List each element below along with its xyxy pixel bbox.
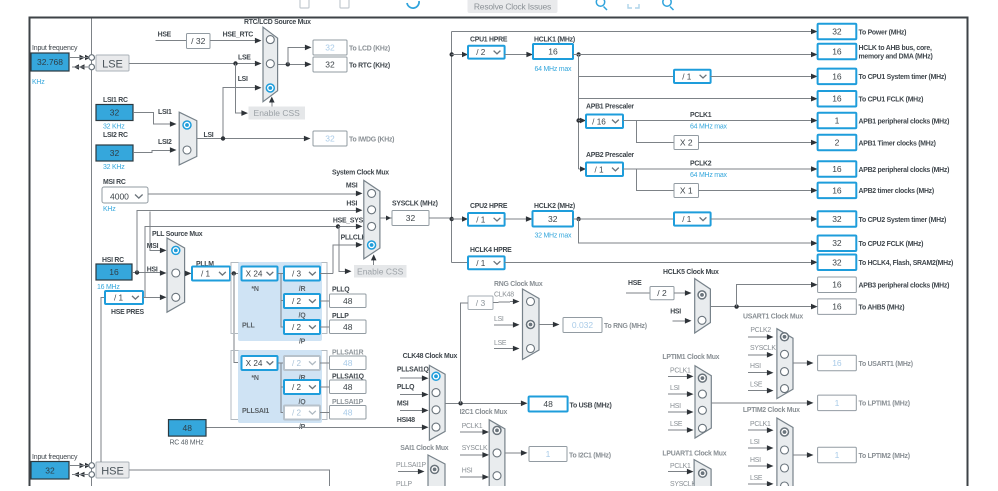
svg-text:To RNG (MHz): To RNG (MHz) (604, 323, 647, 330)
svg-text:X 24: X 24 (246, 359, 263, 368)
svg-text:32: 32 (325, 134, 335, 144)
svg-text:16: 16 (832, 280, 842, 290)
svg-text:HSI48: HSI48 (397, 417, 415, 424)
svg-text:48: 48 (343, 322, 353, 332)
svg-text:MSI: MSI (397, 401, 409, 408)
svg-text:SYSCLK: SYSCLK (670, 481, 696, 486)
svg-text:HCLK2 (MHz): HCLK2 (MHz) (534, 203, 575, 210)
svg-text:To CPU2 FCLK (MHz): To CPU2 FCLK (MHz) (859, 241, 924, 248)
svg-text:HSI: HSI (147, 267, 158, 274)
svg-text:To HCLK4, Flash, SRAM2(MHz): To HCLK4, Flash, SRAM2(MHz) (859, 260, 954, 267)
svg-text:32: 32 (45, 465, 55, 475)
svg-text:/Q: /Q (299, 313, 307, 320)
svg-text:X 2: X 2 (680, 138, 693, 148)
svg-text:*N: *N (251, 286, 258, 293)
svg-text:/ 2: / 2 (292, 297, 302, 306)
svg-text:PCLK2: PCLK2 (690, 161, 712, 168)
svg-text:32: 32 (325, 60, 335, 70)
svg-text:PCLK1: PCLK1 (690, 112, 712, 119)
svg-text:Resolve Clock Issues: Resolve Clock Issues (474, 1, 551, 11)
svg-text:PCLK1: PCLK1 (750, 421, 771, 428)
svg-text:To LPTIM1 (MHz): To LPTIM1 (MHz) (859, 401, 910, 408)
svg-text:PLLP: PLLP (332, 313, 349, 320)
svg-text:PCLK1: PCLK1 (462, 423, 483, 430)
svg-text:HSI RC: HSI RC (102, 257, 124, 264)
svg-text:48: 48 (343, 296, 353, 306)
svg-text:*N: *N (251, 375, 258, 382)
svg-text:32: 32 (110, 108, 120, 118)
svg-text:APB1 Timer clocks (MHz): APB1 Timer clocks (MHz) (859, 140, 936, 147)
svg-text:PLL: PLL (242, 323, 255, 330)
svg-text:To LPTIM2 (MHz): To LPTIM2 (MHz) (859, 453, 910, 460)
svg-text:32: 32 (832, 257, 842, 267)
svg-text:64 MHz max: 64 MHz max (690, 172, 728, 179)
svg-text:16: 16 (832, 302, 842, 312)
svg-text:32: 32 (406, 213, 416, 223)
svg-text:32.768: 32.768 (37, 57, 63, 67)
svg-text:LSI: LSI (670, 385, 680, 392)
svg-text:Enable CSS: Enable CSS (357, 266, 404, 276)
svg-text:HSI: HSI (670, 309, 681, 316)
svg-text:PLLSAI1R: PLLSAI1R (332, 350, 364, 357)
svg-text:MSI RC: MSI RC (103, 179, 126, 186)
svg-text:16 MHz: 16 MHz (97, 284, 120, 291)
svg-text:/ 1: / 1 (682, 72, 692, 81)
svg-text:LSE: LSE (750, 475, 763, 482)
svg-text:HSI: HSI (750, 363, 761, 370)
svg-text:/ 2: / 2 (476, 48, 486, 57)
svg-text:RC 48 MHz: RC 48 MHz (170, 440, 205, 447)
svg-text:/R: /R (299, 286, 306, 293)
svg-text:RNG Clock Mux: RNG Clock Mux (494, 281, 543, 288)
svg-text:1: 1 (546, 449, 551, 459)
svg-text:PCLK2: PCLK2 (750, 327, 771, 334)
svg-text:PLL Source Mux: PLL Source Mux (152, 231, 203, 238)
svg-text:PCLK1: PCLK1 (670, 367, 691, 374)
svg-text:PLLSAI1Q: PLLSAI1Q (332, 374, 365, 381)
svg-text:LSE: LSE (238, 55, 251, 62)
svg-text:16: 16 (548, 47, 558, 57)
svg-text:HSE: HSE (101, 466, 124, 478)
svg-text:LSI: LSI (494, 316, 504, 323)
svg-text:/ 16: / 16 (592, 117, 606, 126)
svg-text:32: 32 (325, 43, 335, 53)
svg-text:/P: /P (299, 339, 306, 346)
svg-text:Enable CSS: Enable CSS (254, 108, 301, 118)
svg-text:KHz: KHz (32, 79, 45, 86)
svg-text:To Power (MHz): To Power (MHz) (859, 29, 907, 36)
svg-text:16: 16 (832, 358, 842, 368)
svg-text:PLLQ: PLLQ (397, 384, 415, 391)
svg-text:APB1 peripheral clocks (MHz): APB1 peripheral clocks (MHz) (859, 118, 950, 125)
svg-text:/ 2: / 2 (292, 383, 302, 392)
svg-text:16: 16 (109, 267, 119, 277)
svg-text:48: 48 (343, 382, 353, 392)
svg-text:/ 32: / 32 (191, 36, 205, 46)
svg-text:16: 16 (832, 185, 842, 195)
svg-text:PLLCLK: PLLCLK (341, 235, 367, 242)
svg-text:LSI2: LSI2 (158, 139, 172, 146)
svg-text:/ 1: / 1 (476, 259, 486, 268)
svg-text:I2C1 Clock Mux: I2C1 Clock Mux (460, 409, 508, 416)
svg-text:/ 1: / 1 (114, 294, 124, 303)
svg-text:/ 1: / 1 (201, 270, 211, 279)
svg-text:PLLSAI1: PLLSAI1 (242, 408, 269, 415)
svg-text:LSI2 RC: LSI2 RC (103, 132, 128, 139)
svg-text:32 KHz: 32 KHz (103, 124, 125, 131)
svg-text:HSE PRES: HSE PRES (111, 309, 145, 316)
svg-text:LPTIM1 Clock Mux: LPTIM1 Clock Mux (662, 354, 719, 361)
svg-text:LSI: LSI (750, 439, 760, 446)
svg-text:To CPU1 System timer (MHz): To CPU1 System timer (MHz) (859, 74, 947, 81)
svg-text:APB2 Prescaler: APB2 Prescaler (586, 152, 634, 159)
svg-text:HSE_SYS: HSE_SYS (333, 217, 364, 224)
svg-text:/ 2: / 2 (292, 323, 302, 332)
svg-text:APB3 peripheral clocks (MHz): APB3 peripheral clocks (MHz) (859, 283, 950, 290)
svg-text:/ 2: / 2 (292, 359, 302, 368)
svg-text:SYSCLK (MHz): SYSCLK (MHz) (392, 201, 438, 208)
svg-text:32: 32 (832, 27, 842, 37)
svg-text:32: 32 (832, 238, 842, 248)
svg-text:32: 32 (548, 214, 558, 224)
svg-text:1: 1 (835, 116, 840, 126)
svg-text:48: 48 (343, 407, 353, 417)
svg-text:32 MHz max: 32 MHz max (535, 233, 573, 240)
svg-text:HCLK1 (MHz): HCLK1 (MHz) (534, 37, 575, 44)
svg-text:To CPU1 FCLK (MHz): To CPU1 FCLK (MHz) (859, 97, 924, 104)
svg-text:X 24: X 24 (246, 270, 263, 279)
svg-text:HCLK to AHB bus, core,: HCLK to AHB bus, core, (859, 45, 932, 52)
svg-text:/ 2: / 2 (292, 409, 302, 418)
svg-text:RTC/LCD Source Mux: RTC/LCD Source Mux (244, 19, 311, 26)
svg-text:16: 16 (832, 94, 842, 104)
svg-text:SYSCLK: SYSCLK (462, 445, 488, 452)
svg-text:To USART1 (MHz): To USART1 (MHz) (859, 361, 913, 368)
svg-text:PLLP: PLLP (396, 481, 413, 486)
svg-text:To USB (MHz): To USB (MHz) (570, 403, 612, 410)
svg-text:/ 3: / 3 (292, 270, 302, 279)
svg-text:HSI: HSI (670, 403, 681, 410)
svg-text:PLLSAI1Q: PLLSAI1Q (397, 367, 430, 374)
svg-text:LSI1: LSI1 (158, 109, 172, 116)
svg-text:PCLK1: PCLK1 (670, 463, 691, 470)
svg-text:64 MHz max: 64 MHz max (535, 66, 573, 73)
svg-text:48: 48 (543, 399, 553, 409)
svg-text:/ 1: / 1 (476, 215, 486, 224)
svg-text:/ 1: / 1 (682, 215, 692, 224)
svg-text:To I2C1 (MHz): To I2C1 (MHz) (569, 453, 611, 460)
svg-text:1: 1 (835, 450, 840, 460)
svg-text:16: 16 (832, 164, 842, 174)
svg-text:HCLK4 HPRE: HCLK4 HPRE (470, 247, 512, 254)
svg-text:CLK48 Clock Mux: CLK48 Clock Mux (403, 353, 458, 360)
svg-text:/ 2: / 2 (657, 288, 667, 298)
svg-text:16: 16 (832, 71, 842, 81)
svg-text:memory and DMA (MHz): memory and DMA (MHz) (859, 54, 933, 61)
svg-text:HSI: HSI (346, 200, 357, 207)
svg-text:CPU1 HPRE: CPU1 HPRE (470, 37, 508, 44)
svg-text:PLLSAI1P: PLLSAI1P (332, 399, 364, 406)
svg-text:4000: 4000 (110, 192, 129, 202)
svg-text:PLLSAI1P: PLLSAI1P (396, 462, 426, 469)
svg-text:0.032: 0.032 (572, 320, 594, 330)
svg-text:To CPU2 System timer (MHz): To CPU2 System timer (MHz) (859, 217, 947, 224)
svg-text:LPUART1 Clock Mux: LPUART1 Clock Mux (662, 451, 726, 458)
svg-text:MSI: MSI (346, 183, 358, 190)
svg-text:SYSCLK: SYSCLK (750, 345, 776, 352)
svg-text:HCLK5 Clock Mux: HCLK5 Clock Mux (663, 269, 719, 276)
svg-text:16: 16 (832, 47, 842, 57)
svg-text:Input frequency: Input frequency (32, 454, 78, 461)
svg-text:USART1 Clock Mux: USART1 Clock Mux (743, 314, 803, 321)
svg-text:To AHB5 (MHz): To AHB5 (MHz) (859, 304, 905, 311)
svg-text:APB1 Prescaler: APB1 Prescaler (586, 104, 634, 111)
svg-text:/ 3: / 3 (476, 298, 486, 308)
svg-text:MSI: MSI (147, 243, 159, 250)
svg-text:Input frequency: Input frequency (32, 45, 78, 52)
svg-text:48: 48 (183, 423, 193, 433)
svg-text:X 1: X 1 (680, 186, 693, 196)
svg-text:LSE: LSE (750, 381, 763, 388)
svg-text:HSE_RTC: HSE_RTC (223, 32, 254, 39)
svg-text:APB2 timer clocks (MHz): APB2 timer clocks (MHz) (859, 188, 934, 195)
svg-text:System Clock Mux: System Clock Mux (332, 170, 389, 177)
svg-text:PLLQ: PLLQ (332, 287, 350, 294)
svg-text:APB2 peripheral clocks (MHz): APB2 peripheral clocks (MHz) (859, 167, 950, 174)
svg-text:HSE: HSE (628, 280, 642, 287)
svg-text:LSE: LSE (670, 421, 683, 428)
svg-text:64 MHz max: 64 MHz max (690, 124, 728, 131)
svg-text:LSE: LSE (494, 340, 507, 347)
svg-text:SAI1 Clock Mux: SAI1 Clock Mux (400, 445, 449, 452)
svg-text:LSE: LSE (102, 59, 123, 71)
svg-text:HSI: HSI (750, 457, 761, 464)
svg-text:To LCD (KHz): To LCD (KHz) (349, 46, 390, 53)
svg-text:/ 1: / 1 (594, 165, 604, 174)
svg-text:HSE: HSE (158, 32, 172, 39)
svg-text:KHz: KHz (103, 206, 116, 213)
svg-text:LSI: LSI (204, 132, 214, 139)
svg-text:To RTC (KHz): To RTC (KHz) (349, 63, 390, 70)
svg-text:48: 48 (343, 358, 353, 368)
svg-text:To IWDG (KHz): To IWDG (KHz) (349, 137, 394, 144)
svg-text:32: 32 (110, 148, 120, 158)
svg-text:LSI: LSI (238, 76, 248, 83)
svg-text:LSI1 RC: LSI1 RC (103, 97, 128, 104)
svg-text:CLK48: CLK48 (494, 292, 514, 299)
svg-text:LPTIM2 Clock Mux: LPTIM2 Clock Mux (743, 407, 800, 414)
svg-text:CPU2 HPRE: CPU2 HPRE (470, 203, 508, 210)
svg-text:32: 32 (832, 214, 842, 224)
svg-text:HSI: HSI (462, 467, 473, 474)
svg-text:1: 1 (835, 398, 840, 408)
svg-text:32 KHz: 32 KHz (103, 164, 125, 171)
svg-text:2: 2 (835, 138, 840, 148)
